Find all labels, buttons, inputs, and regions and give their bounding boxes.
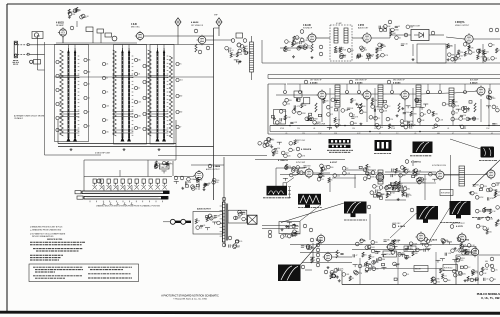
svg-text:100: 100 — [84, 17, 87, 19]
note para3 line3 — [30, 259, 59, 261]
right edge part resistor R59 — [489, 209, 491, 214]
svg-text:220: 220 — [475, 193, 478, 195]
svg-text:.01: .01 — [495, 58, 497, 60]
sound-IF part callout P46 — [304, 44, 308, 48]
OSC cross tie wire — [148, 113, 169, 115]
IF3 part callout P108 — [451, 111, 455, 115]
wire selector to tuner a — [83, 160, 85, 177]
sync2 part wire stub — [317, 174, 322, 176]
selector wafer contact 4 — [114, 179, 117, 183]
sync part callout P150 — [289, 173, 293, 177]
svg-text:05: 05 — [203, 225, 205, 227]
RF-A shield box — [55, 45, 89, 142]
AGC part capacitor C25 — [460, 115, 463, 116]
hor-osc part capacitor C34 — [390, 182, 391, 185]
left col part callout P263 — [308, 246, 312, 250]
vert osc xfmr caption — [298, 207, 322, 209]
hor amp part callout P232 — [462, 251, 466, 255]
AGC part wire stub — [456, 108, 461, 110]
coil strip top arrowhead — [156, 49, 158, 53]
diagonal wire top-right corner — [473, 160, 500, 186]
svg-text:4 6AB4: 4 6AB4 — [213, 165, 221, 168]
row4 part capacitor C29 — [274, 148, 277, 149]
svg-text:05: 05 — [146, 66, 148, 68]
svg-text:.05: .05 — [457, 275, 459, 277]
IF3 part callout P111 — [400, 120, 404, 124]
vert part callout P161 — [363, 168, 367, 172]
speaker box part callout P211 — [242, 217, 246, 221]
damper part callout P176 — [475, 196, 479, 200]
table item2 line2 — [35, 277, 65, 279]
selector wafer contact 9 — [149, 179, 152, 183]
ground IF link — [239, 60, 242, 63]
wire top drop — [346, 84, 348, 90]
IF1 part capacitor C14 — [290, 122, 293, 123]
input filter box — [34, 60, 41, 65]
svg-text:4 6BC8 RF UNIT: 4 6BC8 RF UNIT — [95, 153, 111, 155]
selector contact stem 6 — [129, 183, 131, 185]
RF-B coil strip 2 black foot — [127, 137, 131, 142]
wire drop — [399, 175, 401, 187]
pictorial: flyback transformer A — [417, 206, 439, 223]
audio out part callout P204 — [191, 187, 195, 191]
box trap L5 — [236, 33, 243, 38]
svg-text:.001: .001 — [138, 102, 141, 104]
IF3 part resistor R33 — [410, 111, 412, 116]
control part callout P185 — [385, 186, 389, 190]
hor amp part callout P231 — [457, 256, 461, 260]
svg-text:47: 47 — [289, 41, 291, 43]
damper part callout P179 — [471, 191, 475, 195]
selector contact stem 9 — [150, 183, 152, 185]
height part callout P228 — [426, 239, 430, 243]
sync row bus wire d — [444, 174, 487, 176]
wire det out — [429, 34, 444, 36]
vert amp part callout P223 — [360, 239, 364, 243]
bus wire y225 — [262, 225, 298, 227]
box M2 — [97, 29, 104, 33]
svg-text:HOR OSC: HOR OSC — [392, 223, 401, 225]
wire — [412, 44, 414, 56]
height part wire stub v — [405, 256, 407, 258]
tuner callout P32 — [143, 112, 146, 115]
svg-text:05: 05 — [479, 211, 481, 213]
sync part resistor R41 — [297, 170, 299, 175]
wire antenna to tuner box lower — [29, 53, 44, 55]
selector wafer contact 2 — [100, 179, 103, 183]
svg-text:4 6AX4: 4 6AX4 — [430, 239, 438, 242]
audio box part resistor R66 — [206, 217, 208, 222]
svg-text:05: 05 — [456, 271, 458, 273]
flyback A caption — [440, 222, 460, 224]
selector contact stem 1 — [94, 183, 96, 185]
OSC coil strip 2 black foot — [162, 137, 166, 142]
screw pictorial callout P270 — [235, 239, 239, 243]
RF-A cross tie wire — [60, 116, 80, 118]
sound-IF part ground — [292, 55, 295, 58]
IF1 part part box — [309, 118, 312, 120]
hor-osc part callout P166 — [418, 177, 422, 181]
svg-text:680: 680 — [146, 82, 149, 84]
bottom center part callout P265 — [332, 274, 336, 278]
selector slider bar lower — [84, 196, 168, 199]
IF1 part part box — [297, 99, 300, 101]
AGC part callout P119 — [460, 125, 464, 129]
IF link part resistor R4 — [230, 52, 232, 57]
resistor R31 — [195, 44, 197, 52]
wire — [214, 27, 220, 29]
IF2 part callout P88 — [331, 98, 335, 102]
wire — [385, 171, 436, 173]
callout near V3 — [194, 29, 198, 33]
IF2 part capacitor C20 — [374, 109, 375, 112]
bus wire y155 — [158, 155, 267, 157]
video out part resistor R18 — [468, 45, 470, 50]
callout 12BH7A b — [405, 160, 409, 164]
svg-text:120: 120 — [463, 115, 466, 117]
pictorial: focus magnet (black with curve) — [278, 265, 301, 282]
top callout P132 — [464, 91, 467, 94]
RF-B cross tie wire — [113, 116, 134, 118]
selector wafer coil 1 — [93, 185, 97, 190]
IF1 part callout P76 — [305, 117, 309, 121]
audio box part callout P206 — [210, 216, 214, 220]
audio box part wire stub v — [207, 228, 209, 231]
speaker box part callout P213 — [238, 212, 242, 216]
selector arrow 2 — [110, 202, 112, 204]
vert amp part capacitor C57 — [398, 253, 401, 254]
speaker box part wire stub v — [242, 213, 244, 216]
svg-text:4 6T4: 4 6T4 — [360, 239, 366, 242]
vert amp part callout P217 — [371, 249, 375, 253]
selector contact stem 7 — [136, 183, 138, 185]
wire T1 top — [251, 36, 253, 42]
tube V16 vert osc — [316, 234, 325, 245]
coil strip top arrowhead — [74, 49, 76, 53]
svg-text:.05: .05 — [330, 107, 332, 109]
IF2 part callout P92 — [386, 117, 390, 121]
tube V17 audio output 6AQ5 — [194, 170, 204, 181]
bottom center part callout P266 — [330, 270, 334, 274]
sync2 part callout P152 — [320, 164, 324, 168]
IF3 part callout P112 — [451, 117, 455, 121]
power part callout P247 — [491, 268, 495, 272]
tuner top feeder wire — [74, 45, 76, 50]
svg-text:AGC AMP: AGC AMP — [470, 79, 479, 82]
audio det part callout P56 — [360, 46, 364, 50]
svg-text:A PHOTOFACT STANDARD NOTATI: A PHOTOFACT STANDARD NOTATION SCHEMATIC — [161, 294, 219, 297]
callout col 255 — [316, 253, 320, 257]
ground tuner 1 — [70, 148, 73, 151]
det driver part part box — [384, 29, 387, 31]
callout T9 bottom — [222, 243, 226, 247]
OSC cross tie wire — [148, 132, 169, 134]
selector wafer coil 11 — [163, 185, 167, 190]
power part ground — [464, 279, 467, 282]
hor amp part capacitor C61 — [445, 253, 446, 256]
vertical bus x456 — [455, 255, 457, 285]
wire — [482, 44, 484, 63]
IF1 part part box — [309, 113, 312, 115]
top callout P128 — [358, 91, 361, 94]
selector feed bus — [84, 159, 176, 161]
screw pictorial capacitor C67 — [229, 244, 230, 247]
svg-text:.01: .01 — [87, 84, 89, 86]
selector wafer contact 1 — [93, 179, 96, 183]
left col part callout P262 — [306, 245, 310, 249]
lower right part callout P258 — [444, 278, 448, 282]
svg-text:680: 680 — [432, 128, 435, 130]
wire tie y178 — [332, 177, 356, 179]
coupling coil box A — [294, 91, 302, 97]
RF-B coil strip 1 — [122, 53, 124, 138]
svg-text:.01: .01 — [487, 228, 489, 230]
screw pictorial callout P269 — [233, 245, 237, 249]
callout — [206, 46, 210, 50]
speaker plug pictorial 1 — [170, 219, 180, 224]
svg-text:100: 100 — [289, 100, 292, 102]
vert amp part resistor R70 — [393, 240, 395, 245]
coil strip top arrowhead — [121, 49, 123, 53]
row4 part callout P139 — [272, 149, 276, 153]
svg-text:4 6W6: 4 6W6 — [463, 239, 470, 242]
video out part resistor R14 — [457, 50, 459, 55]
mid control part capacitor C39 — [401, 190, 404, 191]
svg-text:100: 100 — [216, 180, 219, 182]
pictorial A caption line1 — [327, 149, 353, 151]
pictorial: hor output transformer photo C — [413, 142, 433, 154]
svg-text:120: 120 — [337, 175, 340, 177]
tuner callout P21 — [102, 118, 105, 121]
ground V18 — [327, 266, 330, 269]
table item4 line1 — [88, 273, 131, 275]
svg-text:4 12BH7A: 4 12BH7A — [411, 161, 421, 164]
svg-text:120: 120 — [378, 190, 381, 192]
svg-text:100: 100 — [363, 112, 366, 114]
right edge part ground — [497, 219, 500, 222]
selector tick 10 — [148, 201, 150, 203]
svg-text:.001: .001 — [242, 51, 245, 53]
svg-text:100: 100 — [410, 27, 413, 29]
selector tick 3 — [102, 201, 104, 203]
wire y176 — [174, 176, 194, 178]
svg-text:100: 100 — [468, 133, 471, 135]
bottom center part ground — [336, 276, 339, 279]
sync2 part callout P158 — [327, 165, 331, 169]
video IF box top stub — [268, 83, 286, 85]
RF-A coil strip 2 — [74, 53, 76, 138]
wire diamond down — [218, 26, 220, 36]
OSC cross tie wire — [148, 77, 169, 79]
B+ dist part wire stub — [283, 233, 288, 235]
RF-A cross tie wire — [60, 75, 80, 77]
video IF box left edge — [267, 84, 269, 134]
det driver part capacitor C13 — [395, 26, 398, 27]
IF1 part ground — [293, 108, 296, 111]
wire — [267, 75, 269, 79]
resistor cathode R37 — [474, 103, 476, 112]
svg-text:.05: .05 — [365, 49, 367, 51]
svg-text:2.2: 2.2 — [467, 111, 469, 113]
audio det part part box — [357, 55, 360, 57]
svg-text:ON PAGE 2: ON PAGE 2 — [14, 117, 23, 120]
IF2 part callout P93 — [350, 121, 354, 125]
svg-text:.001: .001 — [371, 247, 374, 249]
svg-text:220: 220 — [435, 113, 438, 115]
vert part part box — [359, 166, 362, 168]
svg-text:120: 120 — [239, 241, 242, 243]
sound takeoff part wire stub — [341, 54, 346, 56]
tube V2 mixer-osc 6J6 — [135, 31, 144, 41]
svg-text:120: 120 — [374, 128, 377, 130]
svg-text:47: 47 — [293, 150, 295, 152]
height part callout P224 — [416, 248, 420, 252]
row4 part resistor R39 — [273, 151, 275, 156]
OSC side winding — [148, 50, 152, 136]
wire — [345, 169, 376, 171]
wire selector to tuner c — [147, 160, 149, 177]
type callout — [349, 80, 353, 84]
wire antenna upper lead — [18, 44, 28, 46]
svg-text:47: 47 — [287, 48, 289, 50]
right edge part callout P190 — [476, 224, 480, 228]
sound takeoff part capacitor C8 — [340, 47, 341, 50]
height part callout P225 — [409, 242, 413, 246]
control box HOR DRIVE — [440, 190, 453, 196]
sync2 part callout P157 — [321, 167, 325, 171]
sync2 part callout P153 — [319, 174, 323, 178]
svg-text:4.5 MC: 4.5 MC — [336, 23, 342, 25]
svg-text:05: 05 — [331, 180, 333, 182]
damper part wire stub v — [497, 183, 499, 186]
selector tick 11 — [155, 201, 157, 203]
tube V19 hor output 2 — [470, 247, 479, 258]
svg-text:680: 680 — [354, 123, 357, 125]
svg-text:AUDIO OUTPUT: AUDIO OUTPUT — [197, 208, 212, 211]
sync2 part wire stub v — [320, 173, 322, 176]
svg-text:.001: .001 — [460, 260, 463, 262]
video out part callout P67 — [463, 42, 467, 46]
note para2 line2 — [36, 250, 79, 252]
IF link part capacitor C2 — [246, 51, 247, 54]
table item1 line3 — [35, 271, 55, 273]
svg-text:120: 120 — [368, 264, 371, 266]
vert out xfmr caption — [344, 219, 367, 221]
tuner top feeder wire — [122, 45, 124, 50]
svg-text:.01: .01 — [407, 274, 409, 276]
svg-text:.001: .001 — [106, 106, 109, 108]
spacer3 — [444, 35, 465, 39]
sync2 part callout P159 — [317, 177, 321, 181]
callout tuner 2 — [112, 36, 117, 41]
sound-IF part capacitor C5 — [298, 46, 301, 47]
top callout P127 — [346, 91, 349, 94]
vert part resistor R44 — [366, 164, 368, 169]
video detector shield box — [411, 30, 429, 41]
hor-osc part callout P168 — [429, 172, 433, 176]
row4 part callout P136 — [267, 138, 271, 142]
tuner callout P10 — [56, 128, 59, 131]
RF-B coil strip 2 top lead — [128, 48, 130, 53]
RF-A coil strip 1 black foot — [67, 137, 71, 142]
audio det part part box — [358, 54, 361, 56]
svg-text:100: 100 — [59, 118, 62, 120]
wire drop — [329, 178, 331, 192]
IF3 part wire stub — [411, 106, 416, 108]
antenna lead terminal upper — [27, 44, 29, 46]
svg-text:100: 100 — [448, 280, 451, 282]
IF3 part callout P109 — [452, 104, 456, 108]
RF-B shield box — [114, 45, 147, 145]
audio box part capacitor C47 — [214, 216, 217, 217]
audio box part resistor R65 — [195, 219, 197, 224]
tuner callout P18 — [102, 76, 105, 79]
RF-A contact tick column — [78, 56, 80, 135]
IF transformer T5 — [378, 85, 383, 107]
svg-text:100: 100 — [467, 53, 470, 55]
svg-text:680: 680 — [296, 43, 299, 45]
mid control part resistor R54 — [386, 193, 388, 198]
svg-text:47: 47 — [198, 221, 200, 223]
video out part callout P59 — [469, 51, 473, 55]
RF-A coil strip 2 top lead — [74, 48, 76, 53]
svg-text:2.2: 2.2 — [87, 126, 89, 128]
power part callout P242 — [479, 272, 483, 276]
svg-text:120: 120 — [229, 48, 232, 50]
callout 5U4 — [310, 238, 314, 242]
audio box part wire stub v — [214, 222, 216, 225]
IF1 part wire stub v — [328, 127, 330, 129]
OSC cross tie wire — [148, 111, 169, 113]
control part capacitor C41 — [407, 194, 408, 197]
height part ground — [405, 256, 408, 259]
svg-text:.05: .05 — [381, 127, 383, 129]
boost line — [385, 199, 406, 201]
svg-text:680: 680 — [382, 259, 385, 261]
IF transformer T8 vert — [378, 170, 383, 184]
tuner mid tie bus — [55, 76, 214, 78]
svg-text:47: 47 — [375, 251, 377, 253]
hor-osc part capacitor C35 — [392, 168, 393, 171]
top callout P130 — [427, 91, 430, 94]
damper part ground — [469, 191, 472, 194]
ground audio — [203, 188, 206, 191]
audio out part callout P205 — [191, 185, 195, 189]
audio det part wire stub v — [367, 58, 369, 61]
vert amp part wire stub v — [383, 254, 385, 257]
vert amp part wire stub — [400, 253, 405, 255]
audio det part wire stub v — [377, 48, 379, 51]
mid control part callout P182 — [403, 187, 407, 191]
wire x224 to audio transformer — [223, 157, 225, 202]
selector arrow 4 — [124, 202, 126, 204]
junction on GEN LINE — [329, 125, 331, 127]
RF-A cross tie wire — [60, 77, 80, 79]
volume part resistor R68 — [155, 164, 157, 169]
power part callout P246 — [485, 264, 489, 268]
wire — [313, 172, 330, 174]
hor-osc part callout P170 — [400, 166, 404, 170]
svg-text:220: 220 — [489, 231, 492, 233]
table item5 line1 — [88, 277, 132, 279]
lower mid part callout P249 — [403, 272, 407, 276]
note para3 line2 — [30, 257, 61, 259]
speaker box part callout P210 — [234, 216, 238, 220]
svg-text:.01: .01 — [399, 37, 401, 39]
audio output transformer T9 — [220, 202, 228, 242]
tuner callout P9 — [56, 116, 59, 119]
wire top drop — [439, 84, 441, 90]
